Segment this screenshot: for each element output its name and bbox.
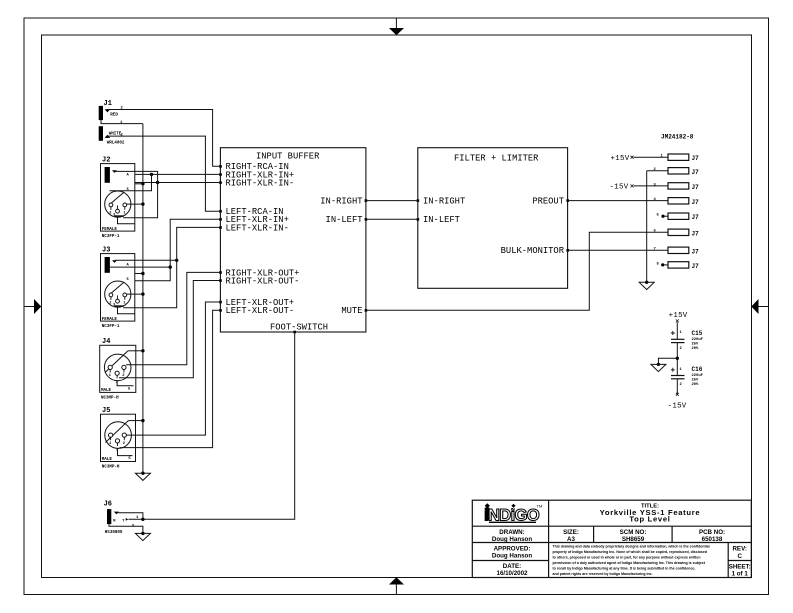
svg-text:IN-LEFT: IN-LEFT [423, 215, 460, 225]
svg-text:INPUT BUFFER: INPUT BUFFER [256, 152, 320, 162]
svg-text:C15: C15 [692, 330, 703, 337]
ground below J6 [135, 532, 150, 541]
wire LEFT-XLR-IN+ net to J3 [135, 219, 221, 280]
svg-text:LEFT-XLR-OUT-: LEFT-XLR-OUT- [226, 306, 295, 316]
svg-text:1 of 1: 1 of 1 [732, 570, 749, 577]
wire PREOUT to J7 pin 4 [568, 200, 668, 202]
wire J6 tip stub [117, 513, 143, 520]
wire J3 sleeve to ground bus [135, 272, 145, 275]
J7 pin 2 [654, 168, 700, 176]
node +15V at J7 pin 1 [611, 155, 634, 163]
TITLE BLOCK [472, 500, 751, 577]
wire junction to ground [658, 358, 677, 364]
wire J3 pin 1 to ground bus [127, 292, 145, 295]
J7 pin 6 [654, 229, 700, 237]
wire MUTE to J7 pin 6 [366, 232, 668, 310]
svg-text:J7: J7 [692, 184, 700, 191]
svg-text:J6: J6 [104, 501, 112, 509]
J7 pin 5 [657, 213, 700, 221]
svg-text:DRAWN:: DRAWN: [499, 529, 524, 536]
svg-text:20%: 20% [692, 347, 700, 351]
svg-text:MUTE: MUTE [341, 306, 362, 316]
svg-text:WRL4002: WRL4002 [107, 142, 125, 146]
svg-text:PCB NO:: PCB NO: [699, 529, 725, 536]
wire J5 shell bracket [118, 448, 133, 456]
svg-text:FILTER + LIMITER: FILTER + LIMITER [454, 154, 539, 164]
svg-text:20%: 20% [692, 383, 700, 387]
svg-text:220uF: 220uF [692, 338, 704, 342]
block U1 INPUT BUFFER [220, 148, 366, 333]
svg-text:APPROVED:: APPROVED: [494, 545, 531, 552]
wire RIGHT-XLR-IN+ row [135, 173, 221, 176]
J7 pin 3 [654, 183, 700, 191]
svg-text:+15V: +15V [669, 312, 688, 320]
svg-text:C: C [737, 553, 742, 560]
wire +15V to C15 [676, 322, 678, 339]
svg-text:J7: J7 [692, 214, 700, 221]
svg-text:RED: RED [110, 113, 118, 117]
svg-text:JM24182-8: JM24182-8 [661, 134, 694, 141]
node -15V below C16 [668, 393, 687, 411]
wire J2 tip branch [115, 171, 158, 223]
svg-text:and patent rights are reserved: and patent rights are reserved by Indigo… [553, 572, 653, 576]
connector J1 RCA pair [99, 100, 125, 146]
svg-text:A3: A3 [567, 536, 575, 543]
svg-text:to others, proposed or used in: to others, proposed or used in whole or … [553, 556, 701, 560]
wire J2 sleeve to ground bus [135, 182, 145, 185]
svg-text:DATE:: DATE: [503, 563, 521, 570]
node +15V above C15 [669, 312, 688, 323]
wire J7 pin 2 to ground rail [647, 170, 668, 172]
svg-text:J7: J7 [692, 263, 700, 270]
svg-text:BULK-MONITOR: BULK-MONITOR [501, 246, 565, 256]
wire J1 WHITE tip to LEFT-RCA-IN [107, 136, 220, 211]
wire LEFT-XLR-OUT+ net to J5 pin 2 [126, 302, 220, 435]
svg-text:to recall by Indigo Manufactur: to recall by Indigo Manufacturing at any… [553, 567, 696, 571]
wire J5 shield to ground bus [128, 419, 144, 422]
svg-text:FEMALE: FEMALE [102, 228, 118, 232]
capacitor C16 220uF 25V 20% [671, 366, 704, 387]
svg-text:J7: J7 [692, 230, 700, 237]
svg-text:MALE: MALE [102, 458, 113, 462]
J7 pin 7 [654, 247, 700, 255]
svg-text:16/10/2002: 16/10/2002 [497, 570, 529, 577]
svg-text:Doug Hanson: Doug Hanson [492, 536, 532, 543]
wire -15V to J7 pin 3 [634, 185, 669, 187]
wire RIGHT-XLR-OUT- net to J4 pin 3 [119, 281, 220, 378]
Indigo logo [484, 503, 542, 524]
svg-text:SCM NO:: SCM NO: [620, 529, 647, 536]
connector J4 male XLR [100, 338, 136, 401]
svg-text:TM: TM [537, 504, 543, 509]
connector J3 female XLR combo [101, 246, 135, 329]
wire J1 RED tip to RIGHT-RCA-IN [107, 110, 220, 167]
svg-text:NC3MP-H: NC3MP-H [101, 397, 119, 401]
svg-text:J7: J7 [692, 199, 700, 206]
wire J2 ring branch [110, 174, 152, 190]
wire J4 shell bracket [117, 380, 133, 386]
svg-text:NC3FP-1: NC3FP-1 [102, 325, 120, 329]
svg-text:REV:: REV: [732, 546, 746, 553]
svg-text:J1: J1 [104, 100, 112, 108]
svg-text:IN-LEFT: IN-LEFT [326, 215, 363, 225]
node -15V at J7 pin 3 [610, 184, 634, 192]
wire J4 shield to ground bus [128, 349, 145, 352]
svg-text:J5: J5 [102, 407, 110, 415]
wire ground bus vertical [142, 124, 144, 473]
svg-text:J7: J7 [692, 248, 700, 255]
wire LEFT-XLR-IN- net to J3 [118, 227, 221, 313]
svg-text:IN-RIGHT: IN-RIGHT [320, 197, 362, 207]
wire ground rail vertical [646, 171, 648, 282]
wire RIGHT-XLR-IN- row [135, 181, 221, 184]
wire +15V to J7 pin 1 [634, 156, 669, 158]
svg-text:SH8659: SH8659 [622, 536, 645, 543]
svg-text:Top Level: Top Level [629, 514, 670, 523]
connector J7 header JM24182-8 [661, 134, 694, 141]
svg-text:SIZE:: SIZE: [563, 529, 579, 536]
wire C16 to -15V [676, 379, 678, 394]
wire BULK-MONITOR to J7 pin 7 [568, 249, 668, 251]
svg-text:HS30805: HS30805 [105, 531, 123, 535]
wire J3 ring row [110, 266, 171, 268]
ground below J7 rail [639, 281, 654, 290]
wire IN-RIGHT link [366, 200, 418, 202]
svg-text:permission of a duly authorize: permission of a duly authorized agent of… [553, 561, 706, 565]
svg-text:IN-RIGHT: IN-RIGHT [423, 197, 465, 207]
svg-text:FOOT-SWITCH: FOOT-SWITCH [270, 322, 328, 332]
svg-text:-15V: -15V [610, 184, 629, 192]
ground at C15/C16 midpoint [651, 363, 666, 372]
wire J7 pin 8 stub [661, 263, 668, 266]
input buffer pin squares [219, 165, 367, 333]
capacitor C15 220uF 25V 20% [671, 330, 704, 351]
svg-text:LEFT-XLR-IN-: LEFT-XLR-IN- [226, 223, 289, 233]
connector J2 female XLR combo [101, 156, 135, 239]
svg-text:J4: J4 [102, 338, 110, 346]
svg-text:RIGHT-XLR-IN-: RIGHT-XLR-IN- [226, 178, 295, 188]
filter pin squares [417, 199, 569, 251]
wire RIGHT-XLR-OUT+ net to J4 pin 2 [126, 272, 220, 364]
wire J6 sleeve to ground [109, 524, 143, 533]
svg-text:property of Indigo Manufacturi: property of Indigo Manufacturing Inc. No… [553, 550, 708, 554]
svg-text:FEMALE: FEMALE [102, 318, 118, 322]
svg-text:220uF: 220uF [692, 374, 704, 378]
wire IN-LEFT link [366, 218, 418, 220]
svg-text:RIGHT-XLR-OUT-: RIGHT-XLR-OUT- [226, 276, 300, 286]
wire C15 to C16 junction [676, 343, 679, 376]
svg-text:J7: J7 [692, 155, 700, 162]
J7 pin 4 [654, 198, 700, 206]
block U2 FILTER + LIMITER [418, 148, 568, 289]
svg-text:650138: 650138 [702, 536, 723, 543]
svg-text:C16: C16 [692, 366, 703, 373]
wire FOOT-SWITCH net to J6 [129, 332, 295, 521]
svg-text:25V: 25V [692, 379, 700, 383]
svg-text:This drawing and data embody p: This drawing and data embody proprietary… [553, 545, 710, 549]
connector J5 male XLR [101, 407, 136, 470]
ground at bottom of ground bus [135, 472, 150, 481]
svg-text:25V: 25V [692, 342, 700, 346]
connector J6 foot switch jack [104, 501, 139, 535]
wire J1 shield to ground bus [101, 120, 143, 124]
wire J3 tip row [115, 259, 177, 261]
svg-text:PREOUT: PREOUT [532, 197, 564, 207]
J7 pin 8 [657, 262, 700, 270]
wire LEFT-XLR-OUT- net to J5 pin 3 [120, 310, 221, 447]
svg-text:NC3FP-1: NC3FP-1 [102, 235, 120, 239]
svg-text:MALE: MALE [101, 389, 112, 393]
svg-text:+15V: +15V [611, 155, 630, 163]
svg-text:Doug Hanson: Doug Hanson [492, 553, 532, 560]
J7 pin 1 [661, 154, 700, 162]
svg-text:NC3MP-H: NC3MP-H [102, 466, 120, 470]
svg-text:J7: J7 [692, 169, 700, 176]
wire J7 pin 5 stub [661, 215, 668, 218]
svg-text:-15V: -15V [668, 403, 687, 411]
wire J2 pin 1 to ground bus [127, 202, 145, 205]
